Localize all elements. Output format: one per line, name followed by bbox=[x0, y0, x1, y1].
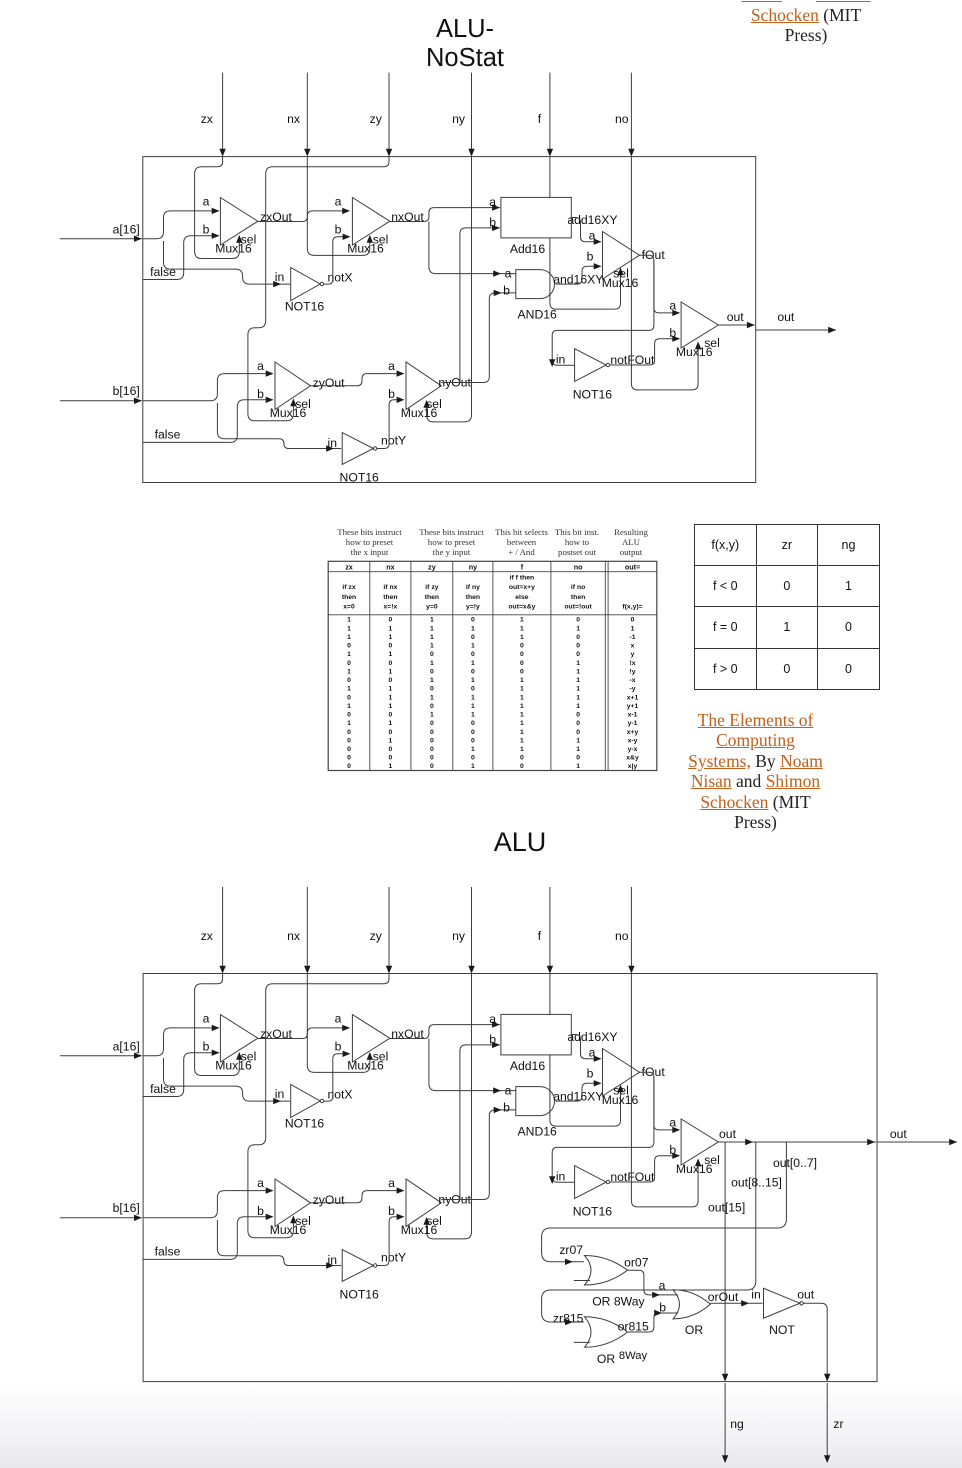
svg-text:0: 0 bbox=[576, 729, 580, 736]
svg-text:1: 1 bbox=[520, 694, 524, 701]
wire add16XY to f-mux a (ALU-NoStat) bbox=[571, 218, 601, 245]
svg-text:0: 0 bbox=[576, 651, 580, 658]
wire orOut to NOT in bbox=[710, 1300, 762, 1306]
svg-text:then: then bbox=[342, 594, 356, 601]
svg-text:in: in bbox=[328, 1253, 338, 1267]
svg-text:0: 0 bbox=[471, 720, 475, 727]
svg-text:b: b bbox=[388, 387, 395, 401]
svg-text:in: in bbox=[556, 1170, 566, 1184]
or8way lower bbox=[574, 1317, 648, 1366]
svg-text:0: 0 bbox=[471, 686, 475, 693]
mux16 zx-mux (ALU-NoStat) bbox=[203, 195, 258, 256]
svg-text:notX: notX bbox=[327, 271, 352, 285]
svg-text:a: a bbox=[203, 1012, 210, 1026]
bottom page-edge gradient bbox=[0, 1382, 962, 1468]
wire zr output bbox=[824, 1383, 844, 1463]
svg-text:zx: zx bbox=[345, 562, 353, 571]
wire fOut branch to notF in (ALU-NoStat) bbox=[549, 260, 654, 367]
svg-text:1: 1 bbox=[389, 703, 393, 710]
label and16XY (ALU-NoStat) bbox=[553, 273, 603, 287]
not16 notF (ALU) bbox=[556, 1166, 655, 1219]
input pin nx (ALU-NoStat) bbox=[287, 73, 310, 157]
svg-text:0: 0 bbox=[430, 746, 434, 753]
svg-text:0: 0 bbox=[520, 660, 524, 667]
wire out (ALU-NoStat) bbox=[718, 310, 754, 328]
svg-text:b: b bbox=[257, 387, 264, 401]
svg-text:x|y: x|y bbox=[628, 763, 638, 770]
svg-text:zr: zr bbox=[833, 1417, 843, 1431]
svg-text:0: 0 bbox=[389, 746, 393, 753]
svg-text:-1: -1 bbox=[629, 634, 635, 641]
svg-text:b: b bbox=[489, 215, 496, 229]
net false (x) (ALU) bbox=[143, 1050, 220, 1097]
svg-text:0: 0 bbox=[471, 729, 475, 736]
svg-text:b: b bbox=[335, 223, 342, 237]
svg-text:AND16: AND16 bbox=[518, 308, 558, 322]
and16 AND16 (ALU) bbox=[503, 1083, 557, 1138]
svg-text:0: 0 bbox=[389, 660, 393, 667]
svg-text:a: a bbox=[669, 1116, 676, 1130]
svg-text:a: a bbox=[489, 195, 496, 209]
svg-text:Add16: Add16 bbox=[510, 242, 545, 256]
svg-text:out: out bbox=[719, 1127, 737, 1141]
svg-text:ny: ny bbox=[452, 929, 466, 943]
svg-text:b: b bbox=[503, 1101, 510, 1115]
svg-text:x-1: x-1 bbox=[628, 712, 638, 719]
svg-text:0: 0 bbox=[471, 634, 475, 641]
svg-text:0: 0 bbox=[520, 755, 524, 762]
net false (y) (ALU-NoStat) bbox=[143, 397, 274, 443]
mux16 zy-mux (ALU-NoStat) bbox=[257, 359, 311, 420]
svg-text:false: false bbox=[150, 1082, 176, 1096]
svg-text:a: a bbox=[388, 1176, 395, 1190]
svg-text:1: 1 bbox=[520, 712, 524, 719]
wire notY to ny-mux b (ALU) bbox=[377, 1214, 405, 1266]
svg-text:b: b bbox=[587, 250, 594, 264]
svg-text:1: 1 bbox=[347, 617, 351, 624]
wire ny to ny-mux sel (ALU) bbox=[423, 974, 471, 1239]
svg-text:a: a bbox=[335, 1012, 342, 1026]
wire nx to nx-mux sel (ALU) bbox=[307, 974, 373, 1073]
svg-text:0: 0 bbox=[347, 712, 351, 719]
label zxOut (ALU-NoStat) bbox=[260, 210, 292, 224]
svg-text:a: a bbox=[203, 195, 210, 209]
svg-text:x: x bbox=[631, 643, 635, 650]
svg-text:0: 0 bbox=[576, 755, 580, 762]
svg-text:b: b bbox=[669, 1143, 676, 1157]
svg-text:1: 1 bbox=[389, 651, 393, 658]
svg-text:Mux16: Mux16 bbox=[270, 406, 307, 420]
svg-text:1: 1 bbox=[520, 677, 524, 684]
input b[16] (ALU-NoStat) bbox=[60, 384, 142, 404]
svg-text:1: 1 bbox=[520, 737, 524, 744]
svg-text:0: 0 bbox=[471, 651, 475, 658]
svg-text:out: out bbox=[777, 310, 795, 324]
svg-text:0: 0 bbox=[347, 763, 351, 770]
mux16 f-mux (ALU-NoStat) bbox=[587, 229, 640, 291]
svg-text:0: 0 bbox=[576, 643, 580, 650]
wire zy to zy-mux sel (ALU) bbox=[248, 974, 389, 1238]
wire zyOut to ny-mux a (ALU) bbox=[311, 1187, 405, 1202]
svg-text:0: 0 bbox=[389, 712, 393, 719]
svg-text:1: 1 bbox=[347, 686, 351, 693]
svg-text:-x: -x bbox=[629, 677, 635, 684]
svg-text:x+1: x+1 bbox=[627, 694, 639, 701]
or8way upper bbox=[574, 1256, 646, 1309]
svg-text:1: 1 bbox=[471, 660, 475, 667]
input b[16] (ALU) bbox=[60, 1201, 142, 1221]
svg-text:Mux16: Mux16 bbox=[602, 1093, 639, 1107]
svg-text:b: b bbox=[388, 1204, 395, 1218]
svg-text:Mux16: Mux16 bbox=[401, 406, 438, 420]
svg-text:y+1: y+1 bbox=[627, 703, 639, 710]
svg-text:if no: if no bbox=[571, 584, 585, 591]
wire zy to zy-mux sel (ALU-NoStat) bbox=[248, 157, 389, 421]
svg-text:-y: -y bbox=[629, 686, 635, 693]
svg-text:0: 0 bbox=[347, 737, 351, 744]
svg-text:0: 0 bbox=[576, 634, 580, 641]
svg-text:notX: notX bbox=[327, 1088, 352, 1102]
svg-text:a: a bbox=[505, 266, 512, 280]
input pin f (ALU) bbox=[538, 887, 553, 974]
wire notX to nx-mux b (ALU) bbox=[324, 1051, 351, 1102]
svg-text:0: 0 bbox=[347, 755, 351, 762]
svg-text:NOT16: NOT16 bbox=[340, 1288, 380, 1302]
svg-text:1: 1 bbox=[389, 720, 393, 727]
not16 notY (ALU) bbox=[328, 1250, 407, 1302]
svg-text:1: 1 bbox=[576, 694, 580, 701]
input pin no (ALU-NoStat) bbox=[615, 73, 635, 157]
mux16 nx-mux (ALU-NoStat) bbox=[335, 195, 390, 256]
wire no to out-mux sel (ALU) bbox=[631, 974, 701, 1207]
input pin ny (ALU-NoStat) bbox=[452, 73, 475, 157]
label zyOut (ALU-NoStat) bbox=[313, 376, 345, 390]
wire b branch to notY in (ALU-NoStat) bbox=[217, 403, 341, 452]
svg-text:b: b bbox=[203, 1040, 210, 1054]
svg-text:zy: zy bbox=[370, 929, 383, 943]
svg-text:0: 0 bbox=[471, 617, 475, 624]
svg-text:Add16: Add16 bbox=[510, 1059, 545, 1073]
svg-text:1: 1 bbox=[471, 694, 475, 701]
svg-text:a: a bbox=[257, 1176, 264, 1190]
svg-text:no: no bbox=[615, 929, 629, 943]
wire nyOut to AND16 b (ALU) bbox=[441, 1107, 516, 1200]
svg-text:Mux16: Mux16 bbox=[347, 242, 384, 256]
svg-text:y-1: y-1 bbox=[628, 720, 638, 727]
svg-text:0: 0 bbox=[631, 617, 635, 624]
svg-text:b: b bbox=[659, 1300, 666, 1314]
svg-text:in: in bbox=[556, 353, 566, 367]
svg-text:or07: or07 bbox=[624, 1256, 649, 1270]
svg-text:0: 0 bbox=[347, 643, 351, 650]
svg-text:1: 1 bbox=[347, 720, 351, 727]
wire nxOut branch to AND16 a (ALU) bbox=[429, 1039, 516, 1094]
svg-text:1: 1 bbox=[389, 668, 393, 675]
input pin f (ALU-NoStat) bbox=[538, 73, 553, 157]
svg-text:then: then bbox=[383, 594, 397, 601]
svg-text:1: 1 bbox=[471, 763, 475, 770]
wire notFOut to out-mux b (ALU) bbox=[610, 1153, 681, 1183]
svg-text:out[8..15]: out[8..15] bbox=[731, 1176, 782, 1190]
wire out external (ALU) bbox=[877, 1127, 957, 1145]
svg-text:then: then bbox=[425, 594, 439, 601]
svg-text:0: 0 bbox=[520, 651, 524, 658]
input pin no (ALU) bbox=[615, 887, 635, 974]
enclosure box (ALU) bbox=[143, 974, 877, 1382]
and16 AND16 (ALU-NoStat) bbox=[503, 266, 557, 321]
not gate NOT bbox=[751, 1288, 815, 1337]
label and16XY (ALU) bbox=[553, 1090, 603, 1104]
svg-text:0: 0 bbox=[430, 755, 434, 762]
wire f to f-mux sel (ALU-NoStat) bbox=[550, 238, 624, 309]
svg-text:0: 0 bbox=[389, 677, 393, 684]
svg-text:0: 0 bbox=[347, 660, 351, 667]
svg-text:a: a bbox=[505, 1083, 512, 1097]
svg-text:no: no bbox=[615, 112, 629, 126]
svg-text:in: in bbox=[328, 436, 338, 450]
label zr07 bbox=[559, 1243, 583, 1257]
svg-text:out[0..7]: out[0..7] bbox=[773, 1156, 817, 1170]
svg-text:0: 0 bbox=[471, 755, 475, 762]
svg-text:1: 1 bbox=[430, 677, 434, 684]
svg-text:0: 0 bbox=[430, 651, 434, 658]
svg-text:1: 1 bbox=[471, 677, 475, 684]
svg-text:f(x,y)=: f(x,y)= bbox=[622, 604, 642, 611]
svg-text:1: 1 bbox=[471, 746, 475, 753]
citation block top right (clipped) bbox=[696, 0, 916, 46]
truth table image bbox=[328, 561, 657, 770]
svg-text:nx: nx bbox=[287, 929, 300, 943]
svg-text:1: 1 bbox=[471, 712, 475, 719]
svg-text:false: false bbox=[155, 428, 181, 442]
svg-text:1: 1 bbox=[430, 634, 434, 641]
svg-text:1: 1 bbox=[520, 729, 524, 736]
wire b branch to notY in (ALU) bbox=[217, 1220, 341, 1269]
svg-text:0: 0 bbox=[471, 737, 475, 744]
svg-text:NOT16: NOT16 bbox=[285, 300, 325, 314]
svg-text:1: 1 bbox=[430, 712, 434, 719]
svg-text:zr815: zr815 bbox=[553, 1312, 584, 1326]
svg-text:a: a bbox=[589, 229, 596, 243]
svg-text:1: 1 bbox=[520, 703, 524, 710]
title ALU bbox=[470, 827, 570, 858]
svg-text:1: 1 bbox=[520, 746, 524, 753]
svg-text:1: 1 bbox=[471, 643, 475, 650]
wire out external (ALU-NoStat) bbox=[756, 310, 836, 333]
svg-text:1: 1 bbox=[430, 660, 434, 667]
mux16 f-mux (ALU) bbox=[587, 1046, 640, 1108]
svg-text:zy: zy bbox=[370, 112, 383, 126]
input pin zy (ALU-NoStat) bbox=[370, 73, 393, 157]
wire nyOut to AND16 b (ALU-NoStat) bbox=[441, 290, 516, 383]
wire b[16] to zy-mux a (ALU-NoStat) bbox=[143, 370, 274, 400]
svg-text:a: a bbox=[335, 195, 342, 209]
svg-text:1: 1 bbox=[576, 737, 580, 744]
svg-text:out=: out= bbox=[625, 562, 640, 571]
svg-text:b: b bbox=[257, 1204, 264, 1218]
svg-text:then: then bbox=[466, 594, 480, 601]
wire notX to nx-mux b (ALU-NoStat) bbox=[324, 234, 351, 285]
svg-text:out: out bbox=[797, 1288, 815, 1302]
add16 Add16 (ALU-NoStat) bbox=[489, 195, 571, 256]
input pin nx (ALU) bbox=[287, 887, 310, 974]
svg-text:Mux16: Mux16 bbox=[270, 1223, 307, 1237]
wire nxOut branch to AND16 a (ALU-NoStat) bbox=[429, 222, 516, 277]
svg-text:OR: OR bbox=[597, 1352, 615, 1366]
svg-text:b[16]: b[16] bbox=[113, 1201, 140, 1215]
svg-text:1: 1 bbox=[389, 625, 393, 632]
svg-text:0: 0 bbox=[347, 677, 351, 684]
svg-text:0: 0 bbox=[430, 703, 434, 710]
label fOut (ALU) bbox=[642, 1065, 666, 1079]
label or815 bbox=[618, 1319, 649, 1333]
label nyOut (ALU-NoStat) bbox=[438, 376, 471, 390]
svg-text:x+y: x+y bbox=[627, 729, 639, 736]
svg-text:OR 8Way: OR 8Way bbox=[592, 1294, 645, 1308]
svg-text:a[16]: a[16] bbox=[113, 1039, 140, 1053]
svg-text:1: 1 bbox=[576, 660, 580, 667]
svg-text:Mux16: Mux16 bbox=[676, 345, 713, 359]
mux16 out-mux (ALU-NoStat) bbox=[669, 299, 719, 360]
svg-text:f: f bbox=[521, 562, 524, 571]
label fOut (ALU-NoStat) bbox=[642, 248, 666, 262]
svg-text:Mux16: Mux16 bbox=[215, 242, 252, 256]
svg-text:a: a bbox=[589, 1046, 596, 1060]
svg-text:a: a bbox=[489, 1012, 496, 1026]
wire a branch to notX in (ALU-NoStat) bbox=[164, 241, 291, 287]
input pin zy (ALU) bbox=[370, 887, 393, 974]
input a[16] (ALU) bbox=[60, 1039, 142, 1059]
svg-text:1: 1 bbox=[576, 703, 580, 710]
svg-text:else: else bbox=[515, 594, 528, 601]
svg-text:Mux16: Mux16 bbox=[215, 1059, 252, 1073]
svg-text:Mux16: Mux16 bbox=[401, 1223, 438, 1237]
svg-text:nx: nx bbox=[287, 112, 300, 126]
svg-text:1: 1 bbox=[471, 703, 475, 710]
wire NOT out to zr bbox=[803, 1303, 830, 1381]
svg-text:zy: zy bbox=[428, 562, 436, 571]
wire fOut to out-mux a (ALU) bbox=[640, 1072, 681, 1133]
title ALU-NoStat bbox=[380, 15, 550, 72]
wire nyOut branch to Add16 b (ALU) bbox=[460, 1042, 500, 1200]
svg-text:1: 1 bbox=[430, 617, 434, 624]
svg-text:!y: !y bbox=[629, 668, 635, 675]
svg-text:1: 1 bbox=[347, 703, 351, 710]
svg-text:out=!out: out=!out bbox=[564, 604, 592, 611]
svg-text:Mux16: Mux16 bbox=[676, 1162, 713, 1176]
svg-text:1: 1 bbox=[576, 763, 580, 770]
svg-text:y=0: y=0 bbox=[426, 604, 438, 611]
svg-text:out: out bbox=[727, 310, 745, 324]
svg-text:a: a bbox=[388, 359, 395, 373]
wire zx to zx-mux sel (ALU-NoStat) bbox=[195, 157, 243, 259]
svg-text:1: 1 bbox=[520, 625, 524, 632]
svg-text:f: f bbox=[538, 929, 542, 943]
input pin ny (ALU) bbox=[452, 887, 475, 974]
svg-text:1: 1 bbox=[347, 634, 351, 641]
svg-text:zx: zx bbox=[201, 112, 213, 126]
svg-text:ny: ny bbox=[469, 562, 477, 571]
label zr815 bbox=[553, 1312, 584, 1326]
svg-text:no: no bbox=[574, 562, 583, 571]
svg-text:zyOut: zyOut bbox=[313, 1193, 345, 1207]
svg-text:if zx: if zx bbox=[342, 584, 355, 591]
svg-text:a: a bbox=[659, 1278, 666, 1292]
wire and16XY to f-mux b (ALU) bbox=[556, 1080, 602, 1101]
not16 notX (ALU-NoStat) bbox=[275, 268, 353, 314]
not16 notY (ALU-NoStat) bbox=[328, 433, 407, 485]
svg-text:x=0: x=0 bbox=[343, 604, 355, 611]
svg-text:orOut: orOut bbox=[708, 1290, 739, 1304]
wire zyOut to ny-mux a (ALU-NoStat) bbox=[311, 370, 405, 385]
svg-text:0: 0 bbox=[430, 668, 434, 675]
svg-text:if nx: if nx bbox=[383, 584, 397, 591]
svg-text:ny: ny bbox=[452, 112, 466, 126]
wire b[16] to zy-mux a (ALU) bbox=[143, 1187, 274, 1217]
wire f segment above Add16 (ALU-NoStat) bbox=[549, 157, 551, 198]
svg-text:out=x&y: out=x&y bbox=[508, 604, 535, 611]
svg-text:x=!x: x=!x bbox=[384, 604, 398, 611]
svg-text:ng: ng bbox=[730, 1417, 744, 1431]
svg-text:nx: nx bbox=[386, 562, 394, 571]
mux16 zx-mux (ALU) bbox=[203, 1012, 258, 1073]
svg-text:1: 1 bbox=[576, 677, 580, 684]
wire out[8..15] to zr815 bbox=[542, 1142, 782, 1325]
svg-text:0: 0 bbox=[347, 694, 351, 701]
svg-text:1: 1 bbox=[347, 668, 351, 675]
svg-text:y-x: y-x bbox=[628, 746, 638, 753]
wire f to f-mux sel (ALU) bbox=[550, 1055, 624, 1126]
svg-text:0: 0 bbox=[430, 729, 434, 736]
input pin zx (ALU-NoStat) bbox=[201, 73, 226, 157]
wire nx to nx-mux sel (ALU-NoStat) bbox=[307, 157, 373, 256]
svg-text:out: out bbox=[890, 1127, 908, 1141]
svg-text:b: b bbox=[489, 1032, 496, 1046]
svg-text:add16XY: add16XY bbox=[567, 213, 617, 227]
svg-text:zr07: zr07 bbox=[559, 1243, 583, 1257]
svg-text:y=!y: y=!y bbox=[466, 604, 480, 611]
wire a[16] to zx-mux a (ALU) bbox=[143, 1025, 220, 1056]
not16 notF (ALU-NoStat) bbox=[556, 349, 655, 402]
f(x,y) status table bbox=[694, 524, 880, 690]
svg-text:1: 1 bbox=[520, 686, 524, 693]
wire zxOut to nx-mux a (ALU-NoStat) bbox=[258, 208, 350, 222]
svg-text:1: 1 bbox=[520, 617, 524, 624]
svg-text:in: in bbox=[751, 1288, 761, 1302]
svg-text:0: 0 bbox=[520, 763, 524, 770]
svg-text:x&y: x&y bbox=[626, 755, 639, 762]
or gate OR bbox=[659, 1278, 711, 1337]
wire fOut branch to notF in (ALU) bbox=[549, 1077, 654, 1184]
svg-text:1: 1 bbox=[389, 634, 393, 641]
svg-text:1: 1 bbox=[520, 634, 524, 641]
svg-text:1: 1 bbox=[576, 686, 580, 693]
svg-text:NOT16: NOT16 bbox=[573, 388, 613, 402]
citation block middle right bbox=[660, 710, 851, 834]
svg-text:notY: notY bbox=[381, 1251, 406, 1265]
svg-text:0: 0 bbox=[576, 712, 580, 719]
svg-text:in: in bbox=[275, 1087, 285, 1101]
wire a branch to notX in (ALU) bbox=[164, 1058, 291, 1104]
wire or815 to OR b bbox=[628, 1310, 679, 1332]
svg-text:false: false bbox=[150, 265, 176, 279]
add16 Add16 (ALU) bbox=[489, 1012, 571, 1073]
label add16XY (ALU-NoStat) bbox=[567, 213, 617, 227]
svg-text:b: b bbox=[669, 326, 676, 340]
svg-text:0: 0 bbox=[520, 668, 524, 675]
label add16XY (ALU) bbox=[567, 1030, 617, 1044]
svg-text:f: f bbox=[538, 112, 542, 126]
